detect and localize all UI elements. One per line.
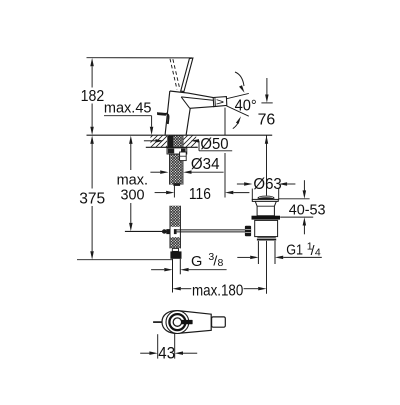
handle ring — [169, 314, 185, 330]
dim 375 — [91, 144, 93, 189]
rod ball joint — [162, 229, 167, 233]
lower arc arrow — [233, 120, 239, 129]
dim 76 — [266, 78, 268, 95]
dim G1 1/4 — [237, 256, 250, 258]
rod knob at waste — [245, 226, 251, 237]
handle stub — [212, 317, 226, 327]
waste locking nut — [252, 216, 281, 220]
dim O50 — [144, 140, 156, 142]
waste neck — [255, 201, 276, 215]
svg-text:300: 300 — [121, 187, 145, 204]
dim G3/8 — [151, 269, 164, 271]
handle left tick — [153, 321, 162, 323]
dim 182 — [91, 66, 93, 87]
deck top line — [87, 134, 273, 136]
dim max.180 — [173, 287, 181, 291]
rod clamp sleeve — [166, 229, 170, 234]
waste flange — [252, 199, 278, 201]
pop-up rod left segment — [125, 230, 162, 232]
svg-text:375: 375 — [79, 190, 105, 207]
svg-text:G: G — [191, 254, 202, 270]
faucet body outline — [165, 91, 213, 135]
tailpipe — [257, 241, 259, 264]
handle top view outline — [162, 311, 211, 334]
svg-text:G1: G1 — [286, 242, 303, 258]
svg-text:76: 76 — [258, 112, 276, 129]
handle bar — [181, 320, 192, 324]
dim 43 — [157, 334, 159, 358]
supply connection nut — [170, 251, 181, 258]
deck hatching left — [139, 134, 179, 149]
dim O63 — [251, 189, 253, 201]
svg-text:8: 8 — [218, 257, 224, 269]
svg-text:Ø63: Ø63 — [253, 176, 281, 193]
svg-text:40°: 40° — [235, 98, 257, 115]
spray angle upper ray — [226, 93, 249, 98]
waste centre line lower — [266, 241, 268, 294]
lever (closed position, dashed) — [170, 59, 177, 90]
svg-text:Ø50: Ø50 — [200, 136, 229, 153]
supply hose braid — [171, 206, 180, 227]
upper arc arrow — [235, 72, 244, 86]
svg-text:40-53: 40-53 — [289, 202, 326, 219]
waste plug cap — [257, 196, 274, 200]
svg-text:4: 4 — [315, 247, 321, 259]
supply level line — [77, 259, 173, 261]
deck hatching right — [174, 134, 209, 149]
shank end cap — [173, 183, 180, 186]
dim 116 — [173, 186, 175, 198]
shank dark left bar — [167, 136, 173, 150]
dim max.300 — [130, 144, 132, 170]
lever top extension line — [87, 57, 193, 59]
mounting washer — [167, 148, 187, 154]
spray angle lower ray — [226, 106, 248, 116]
dim 40-53 — [279, 198, 310, 200]
G3/8 pipe stub — [172, 259, 174, 293]
deck bottom line — [146, 146, 198, 148]
handle inner circle — [173, 318, 181, 326]
svg-text:116: 116 — [189, 186, 211, 203]
svg-text:182: 182 — [81, 88, 105, 105]
pop-up rod guide — [180, 152, 187, 161]
pop-up rod knob on body — [157, 113, 166, 116]
spout underside — [190, 107, 214, 109]
waste body — [255, 220, 278, 236]
hose ferrule — [172, 248, 178, 251]
dim O34 — [150, 171, 160, 173]
lever (open position, solid) — [181, 58, 193, 92]
svg-text:max.180: max.180 — [192, 282, 244, 299]
waste centre line upper — [266, 135, 268, 195]
spout inner lines — [181, 97, 190, 108]
threaded shank braid — [170, 135, 182, 184]
aerator end cap — [213, 97, 227, 107]
svg-text:43: 43 — [158, 345, 175, 363]
svg-text:max.45: max.45 — [104, 100, 152, 117]
handle outer circle — [166, 311, 189, 334]
svg-text:Ø34: Ø34 — [191, 156, 220, 173]
waste bottom collar — [257, 236, 276, 237]
pop-up rod to waste — [177, 229, 245, 231]
